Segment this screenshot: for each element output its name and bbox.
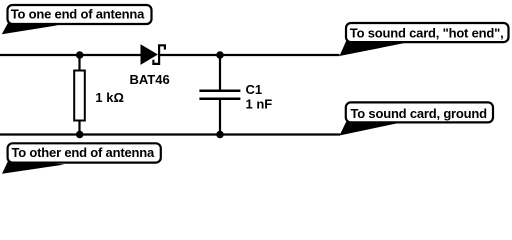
callout box: To other end of antenna xyxy=(8,143,161,162)
svg-text:1 kΩ: 1 kΩ xyxy=(95,90,124,105)
svg-text:BAT46: BAT46 xyxy=(130,72,170,87)
wire bottom rail: antenna return to sound card ground xyxy=(0,133,340,135)
capacitor C1: bottom lead xyxy=(219,99,221,135)
node junction dot: capacitor top xyxy=(216,51,224,59)
callout box: To sound card hot end xyxy=(346,23,509,42)
wire top rail: antenna input to diode anode xyxy=(0,54,142,56)
svg-text:To sound card, "hot end",: To sound card, "hot end", xyxy=(350,26,504,41)
diode D1 BAT46 schottky: cathode bar with hooks xyxy=(153,45,165,64)
wire top rail: diode cathode to sound card hot end xyxy=(160,54,340,56)
capacitor C1: bottom plate xyxy=(199,98,240,101)
callout tail: to sound card ground xyxy=(340,118,402,136)
svg-text:To sound card, ground: To sound card, ground xyxy=(351,106,488,121)
diode D1 BAT46 schottky: anode triangle xyxy=(141,44,158,65)
callout tail: to one end of antenna xyxy=(2,21,58,34)
capacitor C1: top lead xyxy=(219,55,221,91)
node junction dot: resistor top xyxy=(76,51,84,59)
callout box: To one end of antenna xyxy=(8,5,152,24)
svg-text:1 nF: 1 nF xyxy=(246,97,273,112)
callout box: To sound card ground xyxy=(346,102,493,122)
svg-text:To one end of antenna: To one end of antenna xyxy=(11,7,145,22)
resistor R1 1 kOhm (box symbol) xyxy=(74,55,85,135)
callout tail: to sound card hot end xyxy=(340,39,407,56)
node junction dot: capacitor bottom xyxy=(216,131,224,139)
svg-text:To other end of antenna: To other end of antenna xyxy=(12,145,155,160)
callout tail: to other end of antenna xyxy=(2,159,65,174)
node junction dot: resistor bottom xyxy=(76,131,84,139)
capacitor C1: top plate xyxy=(199,90,240,93)
svg-text:C1: C1 xyxy=(246,82,263,97)
